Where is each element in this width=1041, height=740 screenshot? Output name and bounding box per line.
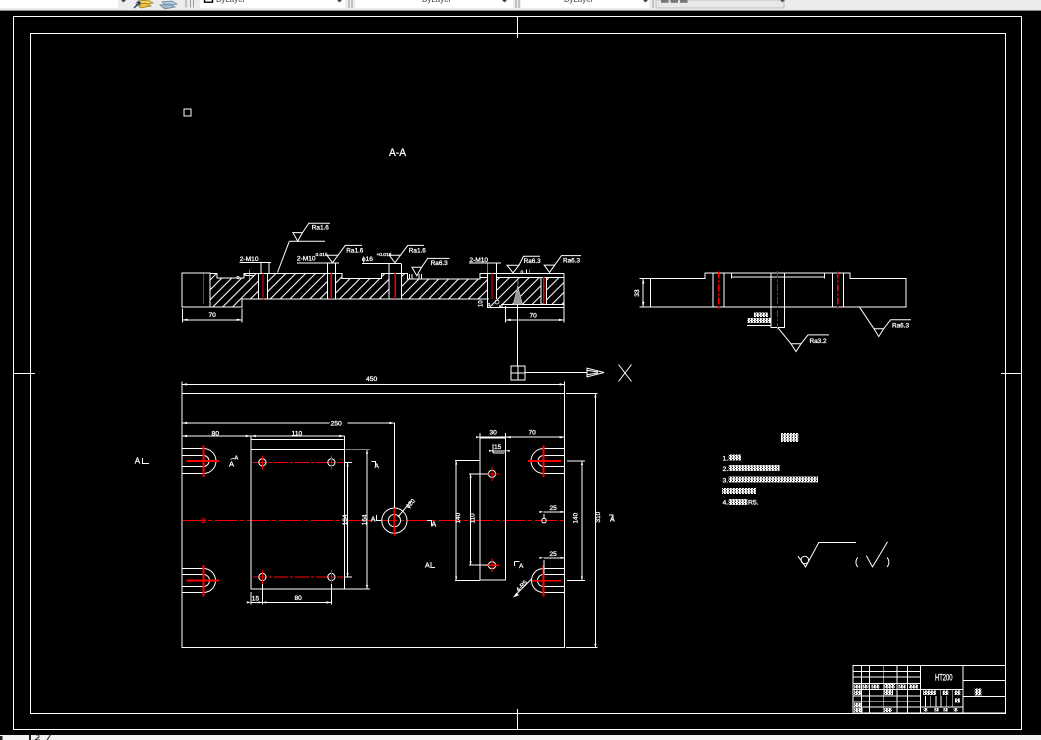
svg-text:A: A [235, 456, 239, 462]
svg-text:70: 70 [209, 312, 217, 319]
svg-text:Ra6.3: Ra6.3 [563, 257, 580, 264]
roughness symbol Ra6.3 [860, 307, 912, 336]
pocket upper edge line [251, 439, 344, 441]
hole E (pin hole in right block) [541, 277, 547, 304]
svg-text:A: A [425, 563, 430, 570]
svg-text:o: o [237, 275, 240, 281]
label 4-R5 with leader [513, 562, 532, 598]
roughness symbol S3 Ra1.6 [389, 245, 426, 262]
svg-text:2.: 2. [723, 466, 729, 473]
hole C (phi16) [389, 273, 402, 299]
svg-text:70: 70 [530, 312, 538, 319]
toolbar separators [186, 0, 194, 8]
roughness symbol S6 Ra6.3 [544, 256, 581, 273]
svg-text:25: 25 [550, 505, 558, 512]
X axis arrowhead [587, 368, 604, 377]
roughness symbol S2 Ra1.6 [327, 245, 364, 262]
hole D (2-M10) [488, 273, 497, 299]
boss tolerance label [754, 312, 768, 317]
svg-text:110: 110 [469, 513, 476, 524]
hatched cross-section body [210, 274, 564, 308]
roughness symbol S5 Ra6.3 [507, 256, 541, 273]
svg-text:A: A [610, 516, 615, 523]
svg-text:R5.: R5. [748, 500, 759, 507]
roughness symbol Ra3.2 [778, 328, 829, 352]
svg-text:164: 164 [361, 514, 368, 525]
section mark A near top-left U [229, 456, 239, 469]
svg-text:Ra6.3: Ra6.3 [892, 323, 909, 330]
section mark A lower middle [425, 562, 435, 570]
lineweight combo [521, 0, 649, 8]
dim 110 right-rect holes [469, 474, 488, 565]
inner groove line of raised band [732, 273, 825, 279]
svg-text:0.015: 0.015 [316, 252, 328, 258]
check mark [866, 542, 887, 567]
hole B (2-M10) [328, 273, 336, 299]
red cross top-right U [528, 446, 561, 478]
svg-text:450: 450 [366, 376, 378, 383]
roughness symbol S1 Ra1.6 [278, 223, 331, 272]
red centerlines [719, 271, 838, 331]
small marks near hole E [527, 270, 530, 274]
svg-text:A-A: A-A [389, 147, 407, 159]
parenthesis ) [887, 558, 889, 568]
small cross mark [246, 270, 254, 282]
color combo [200, 0, 345, 8]
svg-text:Ra1.6: Ra1.6 [312, 225, 329, 232]
svg-text:2-M10: 2-M10 [297, 256, 316, 263]
notes title [781, 433, 799, 442]
extension from circle to 250 dim [393, 423, 395, 508]
grey taper pin [513, 286, 522, 304]
hole edge lines left M10 [713, 273, 724, 307]
svg-text:10: 10 [479, 300, 485, 307]
left grid verticals [862, 666, 921, 713]
svg-text:A: A [375, 463, 380, 470]
plate outline [182, 393, 565, 647]
section mark A left outside [135, 457, 149, 466]
label 2-M10 +0.015 [297, 252, 339, 263]
U-notch bottom-left [182, 569, 216, 593]
svg-text:o: o [488, 302, 491, 308]
dim 134 / 164 vertical [342, 450, 370, 589]
dim 30 [476, 430, 506, 439]
middle/right separators [963, 666, 1006, 713]
tiny row labels [854, 683, 918, 712]
left end block [182, 273, 210, 307]
inner pocket rectangle [251, 450, 344, 589]
U-notch bottom-right [532, 569, 565, 593]
red cross bottom-left U [187, 565, 219, 597]
phi20 leader and label [398, 501, 412, 518]
hole A (2-M10) [259, 273, 268, 300]
plot style combo (disabled) [656, 0, 784, 8]
svg-text:15: 15 [252, 596, 260, 603]
svg-text:A: A [229, 460, 234, 469]
svg-text:Ra3.2: Ra3.2 [810, 338, 827, 345]
small feature circles right [542, 518, 547, 523]
red cross bottom-right U [532, 565, 562, 597]
other-surfaces roughness symbol [798, 543, 856, 567]
section mark A right of circle [427, 521, 437, 529]
svg-text:4-R5: 4-R5 [516, 579, 530, 593]
roughness symbol S4 Ra6.3 [412, 258, 450, 275]
svg-text:o: o [521, 270, 524, 276]
right rect holes [488, 470, 495, 477]
svg-text:1.: 1. [723, 455, 729, 462]
X label [619, 365, 632, 382]
dim 15 right [489, 444, 510, 453]
svg-text:HT200: HT200 [935, 672, 953, 682]
dim 70 plan [506, 430, 565, 445]
svg-text:33: 33 [634, 289, 641, 297]
svg-text:80: 80 [212, 430, 220, 437]
label 2-M10 #1 [240, 256, 271, 263]
svg-text:4.: 4. [723, 500, 729, 507]
section mark A right of inner rect top row [372, 462, 380, 471]
svg-text:A: A [519, 563, 524, 570]
red line left block [203, 274, 205, 304]
svg-text:134: 134 [342, 514, 349, 525]
svg-text:ϕ16: ϕ16 [362, 256, 373, 263]
extension lines above holes [261, 263, 497, 274]
bottom profile [182, 299, 564, 308]
label 2-M10 #2 [469, 257, 501, 264]
svg-text:30: 30 [490, 430, 498, 437]
right zone character [975, 688, 982, 695]
section mark A far right [609, 515, 615, 524]
red row centerlines through holes [253, 461, 344, 463]
section top profile outline [182, 274, 564, 279]
dimension 33 [634, 279, 650, 307]
note line 4 [722, 488, 756, 494]
left grid horizontals [853, 671, 963, 707]
label phi16 +0.018 [362, 252, 401, 264]
dimension 70 right [506, 306, 564, 323]
section mark A left of circle [371, 515, 381, 524]
svg-text:Ra1.6: Ra1.6 [409, 248, 426, 255]
hole edge lines right M10 [832, 273, 843, 307]
UCS box with cross [511, 366, 525, 380]
svg-text:A: A [371, 517, 376, 524]
make object's layer current icon [134, 0, 153, 8]
svg-text:Ra1.6: Ra1.6 [346, 248, 363, 255]
svg-text:A: A [432, 522, 437, 529]
svg-text:3.: 3. [723, 478, 729, 485]
hole edge lines mid phi16 [771, 273, 784, 307]
dim 310 [566, 393, 602, 647]
vertical line from section to UCS box [517, 305, 519, 366]
command line strip [0, 735, 1041, 740]
svg-text:25: 25 [550, 551, 558, 558]
svg-text:Ra6.3: Ra6.3 [431, 260, 448, 267]
svg-text:ϕ20: ϕ20 [406, 498, 418, 510]
right block band line [480, 276, 564, 278]
svg-text:110: 110 [292, 430, 303, 437]
svg-text:140: 140 [455, 512, 462, 523]
X axis line [525, 372, 587, 374]
dim 80 / 110 top [182, 430, 344, 449]
U-notch top-right [531, 449, 565, 474]
layer combo (white, clipped) [0, 0, 118, 8]
parenthesis ( [856, 558, 858, 568]
svg-text:140: 140 [573, 512, 580, 523]
dim 450 [182, 376, 565, 393]
svg-text:Ra6.3: Ra6.3 [524, 258, 541, 265]
svg-text:+0.018: +0.018 [377, 252, 392, 258]
right edge [563, 274, 565, 308]
svg-text:A: A [135, 457, 141, 466]
linetype combo [355, 0, 513, 8]
4 corner holes [259, 459, 335, 581]
dimension 70 left [183, 309, 242, 323]
paper space marker square [184, 109, 191, 116]
main horizontal centerline (red) [183, 520, 564, 522]
svg-text:80: 80 [295, 595, 303, 602]
boss below [771, 307, 784, 328]
svg-text:310: 310 [595, 511, 602, 522]
svg-text:70: 70 [529, 430, 537, 437]
title block outline [853, 666, 1005, 713]
right foot inner bottom line [501, 304, 564, 306]
counterbore marks [410, 274, 422, 279]
center hole phi20 [382, 508, 407, 533]
red cross top-left U [187, 446, 219, 478]
layer previous icon [160, 1, 177, 9]
right rect plate [480, 438, 506, 580]
dim 15 / 80 bottom [247, 584, 332, 604]
middle sub row [923, 689, 963, 691]
dim 140 left of right-rect [455, 461, 480, 581]
svg-text:250: 250 [331, 421, 343, 428]
dim 25 upper [539, 505, 564, 519]
dim 25 lower [539, 551, 564, 574]
side view outline [651, 273, 907, 307]
dim 140 right side [567, 461, 585, 581]
dim 250 [182, 421, 394, 428]
toolbar (AutoCAD object properties bar, clipped) [0, 0, 1041, 11]
U-notch top-left [182, 449, 216, 474]
small red node circle on centerline [202, 519, 206, 523]
middle small cells [926, 690, 953, 707]
svg-text:15: 15 [494, 444, 502, 451]
